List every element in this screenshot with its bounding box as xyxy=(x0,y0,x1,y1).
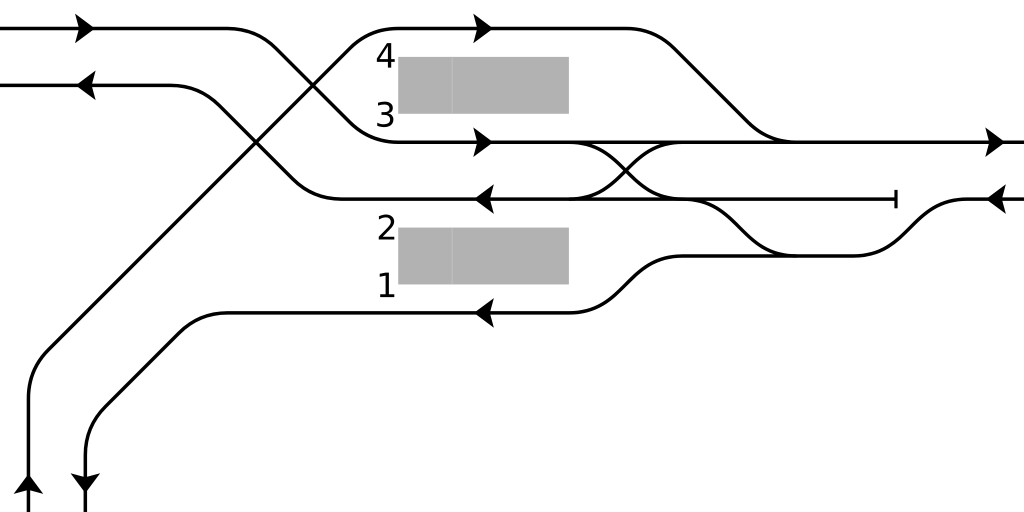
arrow left on east approach track xyxy=(986,184,1006,214)
arrow down on southwest approach vertical xyxy=(71,473,101,493)
label 2 (platform number) xyxy=(379,215,395,240)
arrow right on main line at platform 3 xyxy=(473,127,493,157)
crossover descending curve (main line to track 2) xyxy=(569,142,683,199)
platform 4/3 tile seam xyxy=(452,57,453,114)
label 1 (platform number) xyxy=(380,273,395,297)
arrow up on southwest exit vertical xyxy=(14,474,44,494)
arrow right on track C at platform 4 xyxy=(473,14,493,44)
track A: top-left inbound line curving down to main line (platform 3 / eastbound main) xyxy=(0,28,1024,142)
track B: second left outbound line curving down to track 2 (ends at buffer stop) xyxy=(0,85,896,199)
platform 2/1 tile seam xyxy=(452,228,453,285)
track C: line from bottom-left vertical up diagonally to platform 4 then down to main line xyxy=(28,28,810,512)
label 3 (platform number) xyxy=(377,102,393,127)
arrow left on track 1 xyxy=(474,298,494,328)
branch curve from track 2 down to siding xyxy=(683,199,797,256)
platform 2/1 xyxy=(398,228,569,285)
arrow right on track A west end xyxy=(75,14,95,44)
crossover ascending curve (track 2 to main line) xyxy=(569,142,683,199)
arrow left on track B west end xyxy=(76,71,96,101)
arrow right on main line east end xyxy=(985,127,1005,157)
platform 4/3 xyxy=(398,57,569,114)
arrow left on track 2 xyxy=(474,184,494,214)
label 4 (platform number) xyxy=(377,43,395,67)
buffer stop at end of track 2 xyxy=(894,190,897,208)
track D: bottom-left vertical up to track 1, siding, and exit east on track 2 level xyxy=(85,199,1024,512)
